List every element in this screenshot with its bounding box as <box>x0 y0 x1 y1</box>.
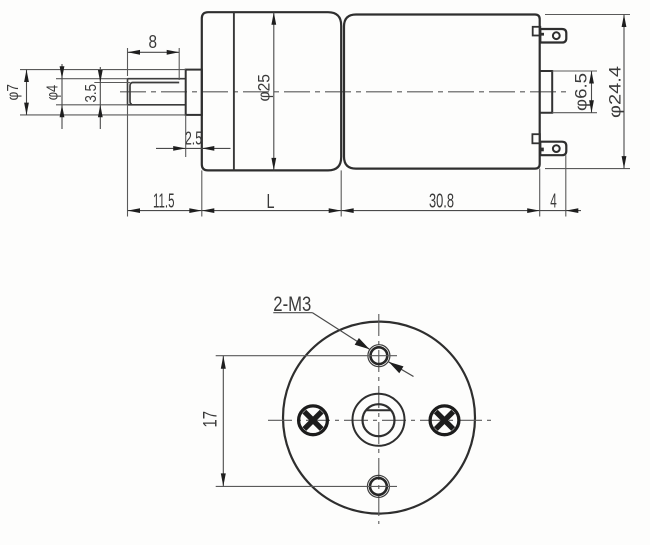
dimension phi7 <box>24 70 29 115</box>
dimension phi4 <box>60 64 65 129</box>
wire: extension lines for phi4 (shaft edges extended) <box>56 79 130 105</box>
wire: horizontal centerline of motor axis <box>120 91 568 93</box>
dimension chain 11.5 / L / 30.8 / 4 <box>128 208 582 213</box>
node: shaft hole circle <box>363 404 395 436</box>
node: top M3 hole <box>368 345 390 367</box>
node: shaft flat (D-cut) edge <box>130 83 179 105</box>
dimension 2.5 (boss width) <box>185 115 187 157</box>
svg-text:11.5: 11.5 <box>153 191 175 213</box>
node: bottom terminal base block <box>532 134 540 143</box>
svg-text:30.8: 30.8 <box>429 191 454 213</box>
node: bottom terminal tab <box>540 142 566 156</box>
svg-text:φ24.4: φ24.4 <box>606 66 625 118</box>
node: gearbox face circle <box>283 322 475 514</box>
dimension phi24.4 (motor dia) <box>545 15 630 169</box>
dimension phi6.5 (bushing dia) <box>552 71 597 113</box>
node: top terminal base block <box>533 27 541 36</box>
node: top terminal hole <box>553 32 560 39</box>
node: bottom terminal crimp notch <box>541 148 544 152</box>
node: rear bushing phi6.5 <box>540 71 553 113</box>
wire: vertical centerline <box>378 314 380 524</box>
node: output shaft (phi4) <box>128 79 186 105</box>
dimension 3.5 <box>98 67 103 129</box>
svg-text:8: 8 <box>149 32 158 52</box>
svg-text:L: L <box>267 191 275 213</box>
node: top terminal crimp notch <box>541 33 544 36</box>
node: phi7 bearing boss <box>186 70 202 115</box>
svg-text:2.5: 2.5 <box>185 129 202 149</box>
node: right screw <box>430 406 459 435</box>
node: gearbox body <box>202 12 341 170</box>
dimension 8 (flat length) <box>128 48 180 80</box>
svg-text:4: 4 <box>550 191 557 213</box>
wire: extension lines to bottom dimension chain <box>128 105 566 217</box>
node: left screw <box>299 406 328 435</box>
node: shaft flat chord <box>366 409 391 411</box>
wire: horizontal centerline <box>268 419 492 421</box>
node: top terminal tab <box>540 29 566 43</box>
node: bottom M3 hole <box>367 475 389 497</box>
node: bottom terminal hole <box>553 145 560 152</box>
node: motor body <box>344 15 540 169</box>
node: center hub outer circle <box>353 394 405 446</box>
svg-text:17: 17 <box>201 411 222 428</box>
node: gearbox front plate split line <box>233 12 235 170</box>
dimension phi25 (gearbox dia) <box>271 12 276 170</box>
svg-text:3.5: 3.5 <box>83 84 100 103</box>
wire: hole centerlines / extension lines for 17 <box>216 356 397 487</box>
svg-text:φ6.5: φ6.5 <box>572 73 591 111</box>
svg-text:φ7: φ7 <box>5 84 22 101</box>
svg-text:φ4: φ4 <box>45 85 62 101</box>
wire: extension lines for phi7 <box>20 70 186 115</box>
dimension 17 <box>221 356 226 487</box>
svg-text:φ25: φ25 <box>255 74 274 102</box>
